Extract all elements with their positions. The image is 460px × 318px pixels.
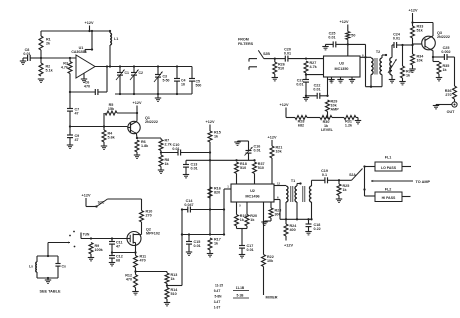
resistor R38 50 — [346, 32, 356, 57]
svg-text:S2A: S2A — [349, 173, 356, 177]
svg-text:270: 270 — [146, 214, 152, 218]
node FROM FILTERS — [238, 38, 254, 47]
T2 core — [375, 58, 377, 75]
svg-text:16: 16 — [181, 83, 185, 87]
resistor R1 — [39, 31, 51, 58]
wire tank tap — [48, 242, 70, 257]
ground (C13) — [183, 175, 189, 178]
wire U1 output rail — [95, 65, 192, 67]
wire Q3 collector feed — [411, 21, 433, 36]
svg-text:MIXER: MIXER — [266, 296, 278, 300]
resistor R26 — [273, 59, 285, 78]
svg-text:0.01: 0.01 — [284, 52, 291, 56]
ground (level line) — [355, 118, 361, 124]
transistor Q2 MPF102 — [127, 228, 160, 246]
capacitor C26 (output) — [433, 46, 455, 60]
ground (R17) — [207, 254, 213, 257]
svg-text:2N2222: 2N2222 — [437, 35, 450, 39]
resistor R10 — [140, 199, 153, 232]
svg-text:470: 470 — [140, 259, 146, 263]
svg-text:U2: U2 — [250, 189, 255, 193]
node note line 3 — [215, 295, 223, 299]
svg-text:S2C: S2C — [98, 201, 105, 205]
op-amp U1 CA3028B — [71, 46, 95, 78]
svg-text:1.8k: 1.8k — [141, 144, 149, 148]
svg-text:0.1: 0.1 — [322, 173, 327, 177]
svg-text:0.22: 0.22 — [314, 227, 321, 231]
capacitor C2 (variable) — [130, 67, 143, 95]
ground (R2) — [38, 79, 44, 82]
resistor R17 — [208, 238, 221, 254]
wire U2 pin6 — [274, 200, 280, 220]
svg-text:T2: T2 — [376, 50, 380, 54]
svg-text:0.01: 0.01 — [194, 244, 201, 248]
resistor R18 — [235, 162, 247, 184]
wire S2B throw 1 — [249, 59, 257, 62]
capacitor C14 — [181, 199, 224, 213]
ground (cap bank) — [155, 94, 161, 101]
resistor R4 — [102, 113, 116, 146]
resistor R25 — [337, 180, 349, 199]
filter FL1 LO PASS — [375, 156, 402, 172]
capacitor C3 (variable) — [154, 67, 170, 95]
svg-text:3-4T: 3-4T — [214, 300, 221, 304]
wire R27 to U3 — [306, 74, 324, 76]
svg-text:47: 47 — [75, 138, 79, 142]
svg-text:0.01: 0.01 — [393, 37, 400, 41]
svg-text:L1: L1 — [114, 37, 118, 41]
svg-text:+12V: +12V — [340, 20, 349, 24]
ground (R23) — [261, 222, 267, 225]
transformer T2 secondary — [388, 58, 397, 76]
svg-text:FL1: FL1 — [385, 156, 392, 160]
svg-text:11-15: 11-15 — [215, 284, 223, 288]
node B (base line left) — [69, 125, 71, 127]
svg-text:10k: 10k — [276, 150, 283, 154]
svg-text:0.01: 0.01 — [296, 83, 303, 87]
svg-text:10k: 10k — [417, 59, 424, 63]
resistor R13 — [165, 272, 177, 287]
svg-text:0.01: 0.01 — [23, 52, 30, 56]
svg-text:4.7k: 4.7k — [61, 66, 69, 70]
capacitor C22 — [306, 84, 329, 99]
svg-text:Cx: Cx — [62, 265, 67, 269]
svg-text:400: 400 — [290, 228, 296, 232]
wire source node — [136, 271, 168, 273]
resistor R22 — [262, 202, 275, 295]
ground (R6) — [134, 155, 140, 158]
ground (R25) — [336, 199, 342, 202]
pin labels U2 — [227, 182, 280, 208]
transformer T1 secondary — [310, 186, 312, 202]
svg-text:9-4T: 9-4T — [214, 289, 221, 293]
pin label U3 out — [362, 54, 364, 58]
node TUN — [83, 233, 90, 237]
plug contact dots — [69, 231, 75, 248]
wire T1 bottom rail — [280, 202, 313, 220]
svg-text:0.01: 0.01 — [191, 167, 198, 171]
resistor R7 — [159, 138, 173, 153]
ground (C17) — [239, 255, 245, 258]
ground (OUT) — [433, 106, 439, 109]
capacitor C19 — [312, 169, 341, 186]
resistor R34 — [411, 45, 425, 69]
wire U2 pin12 to T1 — [274, 185, 286, 187]
svg-text:0.01: 0.01 — [328, 36, 335, 40]
capacitor C24 — [393, 33, 413, 49]
svg-text:51k: 51k — [417, 29, 424, 33]
capacitor C11 — [109, 239, 123, 253]
wire base line — [70, 125, 127, 127]
capacitor C20 — [275, 48, 306, 62]
svg-text:Lx: Lx — [29, 265, 33, 269]
switch S2B — [258, 50, 276, 59]
resistor R29 — [326, 100, 340, 118]
svg-text:U3: U3 — [339, 62, 344, 66]
svg-text:5-50: 5-50 — [163, 79, 170, 83]
node F — [111, 251, 113, 253]
capacitor C12 — [109, 253, 123, 263]
wire FL2 output — [402, 196, 411, 198]
ground (U1) — [81, 79, 87, 82]
node C — [160, 151, 162, 153]
svg-text:SEE TABLE: SEE TABLE — [39, 290, 60, 294]
resistor R37 — [253, 162, 265, 184]
inductor Lx — [29, 256, 37, 278]
wire Q3 emitter — [431, 50, 434, 58]
svg-text:MPF102: MPF102 — [146, 232, 160, 236]
wire tank bottom — [37, 277, 58, 279]
wire emitter node — [137, 137, 161, 139]
svg-text:+12V: +12V — [280, 103, 289, 107]
svg-text:+12V: +12V — [82, 194, 91, 198]
capacitor C15 — [186, 235, 201, 253]
svg-text:5-1B: 5-1B — [237, 294, 245, 298]
capacitor C17 — [239, 244, 254, 255]
svg-text:FROM: FROM — [238, 38, 249, 42]
resistor R6 — [135, 134, 149, 155]
IC U3 MC1350 — [324, 56, 361, 77]
svg-text:S2B: S2B — [263, 52, 270, 56]
inductor L1 — [110, 31, 118, 67]
svg-text:2.7k: 2.7k — [165, 143, 173, 147]
ground (R34) — [409, 69, 415, 72]
svg-text:470: 470 — [84, 85, 90, 89]
resistor R11 — [134, 246, 147, 273]
resistor R14 — [165, 286, 178, 303]
wire Q2 gate line — [81, 233, 127, 240]
resistor R16 — [208, 187, 221, 199]
pin 7 wire (U1 top) — [85, 30, 93, 53]
ground (R4) — [101, 146, 107, 149]
svg-text:T1: T1 — [291, 179, 295, 183]
resistor R8 — [159, 153, 170, 171]
svg-text:1.2k: 1.2k — [345, 124, 353, 128]
wire Q1 collector — [135, 120, 138, 123]
node note line 2 — [214, 289, 221, 293]
svg-text:15k: 15k — [108, 107, 115, 111]
power +12V (level line) — [280, 103, 289, 118]
ground (R35) — [436, 78, 442, 81]
svg-text:MC1496: MC1496 — [245, 195, 259, 199]
ground (tank) — [45, 278, 51, 283]
resistor R15 — [208, 131, 221, 143]
capacitor C6 (feedback) — [69, 67, 107, 96]
node SEE TABLE — [39, 290, 60, 294]
svg-text:LO PASS: LO PASS — [381, 166, 397, 170]
svg-text:500: 500 — [196, 84, 202, 88]
transformer T1 primary — [286, 179, 295, 202]
ground (C18) — [305, 232, 311, 235]
wire osc output — [167, 210, 183, 286]
transistor Q1 2N2222 — [127, 116, 158, 134]
capacitor C13 — [183, 160, 198, 174]
svg-text:47: 47 — [116, 245, 120, 249]
svg-text:OUT: OUT — [447, 110, 456, 114]
svg-text:510: 510 — [171, 292, 177, 296]
ground (R12) — [132, 292, 138, 295]
switch S2A — [339, 165, 366, 180]
capacitor C16 (variable) — [238, 141, 261, 160]
svg-text:AMP: AMP — [331, 108, 340, 112]
switch S2C — [86, 199, 142, 208]
node note line 1 — [215, 284, 223, 288]
svg-text:1-3T: 1-3T — [214, 306, 221, 310]
wire cap-bank bottom rail — [115, 93, 192, 95]
capacitor C21 — [296, 75, 309, 97]
svg-text:+12V: +12V — [284, 244, 293, 248]
wire y234 line — [181, 233, 224, 235]
resistor R31 — [344, 116, 356, 128]
svg-text:11-1B: 11-1B — [236, 286, 245, 290]
svg-text:+12V: +12V — [133, 101, 142, 105]
svg-text:+12V: +12V — [268, 136, 277, 140]
svg-text:820: 820 — [214, 191, 220, 195]
capacitor Cx — [55, 256, 66, 278]
resistor R33 — [411, 23, 424, 46]
svg-text:10k: 10k — [267, 259, 274, 263]
node A (input node) — [40, 57, 42, 59]
svg-text:TO AMP: TO AMP — [416, 180, 431, 184]
svg-text:+12V: +12V — [409, 9, 418, 13]
power +12V (R24) — [284, 244, 293, 248]
node note line 5 — [214, 306, 221, 310]
resistor R12 — [125, 272, 137, 292]
svg-text:100k: 100k — [95, 248, 104, 252]
svg-text:+12V: +12V — [85, 21, 94, 25]
svg-text:MC1350: MC1350 — [335, 67, 349, 71]
power +12V (U3) — [340, 20, 349, 32]
wire input to U1 — [41, 57, 76, 59]
resistor R3 — [61, 58, 72, 92]
wire S2B throw 2 — [249, 67, 257, 70]
svg-text:510: 510 — [240, 166, 246, 170]
resistor R35 — [433, 57, 449, 78]
svg-text:510: 510 — [258, 166, 264, 170]
resistor R28 — [295, 116, 307, 128]
wire x210 chain — [209, 142, 211, 236]
ground (C21) — [303, 96, 309, 101]
svg-text:470: 470 — [126, 278, 132, 282]
svg-text:LEVEL: LEVEL — [321, 128, 334, 132]
wire bias line y160 — [186, 159, 256, 161]
wire U3 out to T2 — [360, 56, 371, 58]
svg-text:5.6k: 5.6k — [108, 136, 116, 140]
svg-text:682: 682 — [298, 124, 304, 128]
capacitor C10 — [161, 143, 210, 156]
pin 1 stub (U2) — [224, 188, 231, 190]
resistor R32 — [401, 45, 413, 82]
svg-text:0.01: 0.01 — [313, 88, 320, 92]
node note line 4 — [214, 300, 221, 304]
ground (C25) — [322, 47, 328, 50]
power +12V (U1 supply) — [85, 21, 94, 31]
pin 5 wire (U3) — [328, 77, 333, 96]
capacitor C7 — [67, 92, 79, 127]
node E (Q3 base) — [411, 44, 413, 46]
resistor R27 — [304, 61, 318, 76]
wire level line — [286, 116, 358, 118]
svg-text:2N2222: 2N2222 — [145, 120, 158, 124]
ground (C9) — [67, 145, 73, 148]
capacitor C8 — [23, 48, 41, 61]
ground (R9) — [88, 258, 94, 261]
wire tank top — [37, 255, 58, 257]
filter FL2 HI PASS — [375, 188, 402, 202]
resistor R9 — [89, 243, 104, 258]
ground (C16) — [234, 142, 240, 145]
capacitor C18 — [306, 219, 321, 231]
transformer T2 primary — [371, 50, 380, 87]
node MIXER — [266, 296, 278, 300]
svg-text:0.047: 0.047 — [184, 203, 193, 207]
svg-text:HI PASS: HI PASS — [382, 196, 396, 200]
connector OUT — [436, 102, 457, 114]
IC U2 MC1496 — [231, 184, 274, 202]
resistor R23 — [265, 202, 282, 222]
svg-text:5.1k: 5.1k — [46, 69, 54, 73]
svg-text:0.01: 0.01 — [247, 248, 254, 252]
resistor R24 — [284, 219, 297, 240]
resistor R21 — [270, 146, 283, 185]
T1 core — [291, 186, 293, 202]
pin grounds (U3) — [328, 77, 355, 83]
power +12V (R21) — [268, 136, 277, 147]
svg-text:C1: C1 — [125, 71, 130, 75]
T2 winding 2 — [380, 54, 387, 75]
ground (C15) — [186, 252, 192, 255]
svg-text:4.7k: 4.7k — [310, 65, 318, 69]
power +12V (R15) — [206, 120, 215, 131]
node winding tap 11-1B — [233, 286, 249, 291]
svg-text:50: 50 — [351, 34, 355, 38]
capacitor C4 — [174, 67, 186, 95]
ground (T2 secondary) — [389, 75, 395, 83]
svg-text:47: 47 — [75, 112, 79, 116]
power +12V (Q1) — [133, 101, 142, 121]
ground (C12) — [109, 263, 115, 266]
resistor R20 — [245, 202, 257, 229]
resistor R30 (LEVEL) — [320, 116, 334, 133]
resistor R36 — [445, 57, 457, 102]
svg-text:+12V: +12V — [206, 120, 215, 124]
svg-text:FL2: FL2 — [385, 188, 392, 192]
resistor R5 — [105, 103, 138, 115]
wire FL1 output — [402, 166, 411, 168]
capacitor C9 — [67, 127, 79, 146]
wire to U3 in — [306, 58, 324, 60]
svg-text:FILTERS: FILTERS — [238, 42, 254, 46]
svg-text:TUN: TUN — [83, 233, 90, 237]
svg-text:C2: C2 — [139, 71, 144, 75]
wire TO AMP — [371, 180, 431, 184]
svg-text:12: 12 — [277, 182, 281, 186]
ground (R32) — [399, 82, 405, 85]
svg-text:270: 270 — [445, 93, 451, 97]
ground (R26) — [272, 78, 278, 81]
power +12V (Q3) — [409, 9, 418, 23]
resistor R19 — [235, 202, 247, 229]
ground (R8) — [158, 170, 164, 173]
wire T2 sec top — [392, 45, 394, 58]
svg-text:5-8N: 5-8N — [215, 295, 223, 299]
node D — [305, 57, 307, 59]
power +12V (S2C) — [82, 194, 91, 207]
wire S2A to filters — [363, 167, 375, 197]
wire supply to T2 — [348, 44, 382, 87]
svg-text:510: 510 — [278, 67, 284, 71]
svg-text:0.002: 0.002 — [441, 50, 450, 54]
node winding tap 5-1B — [233, 294, 249, 299]
svg-text:0.01: 0.01 — [172, 147, 179, 151]
wire supply rail — [41, 30, 111, 32]
wire x224 — [223, 189, 225, 236]
wire C11/C12 to source — [112, 251, 137, 253]
capacitor C1 (variable) — [116, 67, 129, 95]
T1 winding 2 — [295, 182, 302, 202]
capacitor C25 (bypass) — [326, 32, 348, 48]
ground (C8 input) — [20, 61, 26, 64]
pin 4 wire (U1 bottom) — [83, 74, 85, 80]
svg-text:0.01: 0.01 — [254, 149, 261, 153]
capacitor C5 — [189, 67, 201, 95]
svg-text:68: 68 — [116, 259, 120, 263]
wire R19-R20 join — [237, 229, 248, 246]
ground (R14) — [164, 303, 170, 306]
T1 core 2 — [303, 186, 305, 202]
resistor R2 — [39, 58, 54, 76]
transistor Q3 2N2222 — [413, 31, 450, 50]
